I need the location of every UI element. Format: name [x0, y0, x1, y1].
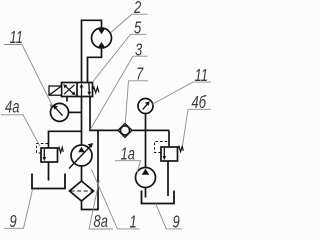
- wire check valve to right branch: [132, 129, 169, 131]
- solenoid actuator of U5: [49, 86, 62, 95]
- svg-text:2: 2: [133, 0, 141, 18]
- pilot dashed line of 4b: [155, 142, 170, 153]
- leader label 1: [92, 170, 140, 229]
- svg-text:9: 9: [173, 213, 180, 233]
- svg-text:3: 3: [135, 40, 142, 60]
- leader label 5: [93, 34, 147, 81]
- wire filter suction loop: [82, 130, 99, 209]
- pump 1 variable: [69, 143, 93, 169]
- svg-text:11: 11: [195, 66, 208, 86]
- spring of 4a: [58, 147, 64, 152]
- leader label 11 left: [4, 45, 53, 107]
- svg-text:8а: 8а: [94, 212, 109, 232]
- spring actuator of U5: [93, 87, 99, 93]
- leader label 4a: [1, 115, 40, 147]
- relief valve 4b: [161, 147, 178, 161]
- wire 4b inlet: [168, 130, 170, 147]
- pump 1a: [136, 168, 156, 188]
- wire pump to filter: [81, 166, 83, 181]
- tank 9 right: [142, 191, 175, 204]
- gauge PG11 right: [138, 99, 153, 114]
- wire valve port B down and right: [90, 97, 118, 131]
- tank 9 left: [32, 174, 65, 189]
- leader label 1a: [115, 161, 141, 173]
- leader label 3: [90, 56, 147, 129]
- svg-text:4б: 4б: [192, 93, 207, 113]
- motor M2: [92, 28, 112, 48]
- relief valve 4a: [41, 148, 58, 162]
- svg-text:1а: 1а: [121, 144, 136, 164]
- leader label 7: [125, 81, 148, 123]
- wire top horizontal of motor loop: [82, 20, 102, 82]
- leader label 11 right: [152, 82, 211, 104]
- svg-text:7: 7: [136, 64, 144, 84]
- wire gauge right stem: [145, 114, 147, 131]
- leader label 9 left: [4, 190, 33, 229]
- valve U5 right square arrows: [80, 83, 91, 97]
- wire gauge left connection: [69, 111, 82, 113]
- wire down to pump 1a: [145, 130, 147, 167]
- svg-text:4а: 4а: [5, 98, 20, 118]
- filter 8a: [70, 181, 94, 201]
- wire pump 1a suction: [145, 188, 147, 198]
- svg-text:5: 5: [134, 19, 141, 39]
- leader label 4b: [183, 109, 212, 146]
- svg-text:9: 9: [10, 212, 17, 232]
- arrowhead of leader 11 left: [50, 104, 53, 108]
- gauge PG11 left: [51, 103, 69, 121]
- wire tap to relief 4a: [49, 131, 82, 148]
- wire pump pressure line P: [81, 97, 83, 146]
- wire 4a outlet to tank: [48, 162, 50, 181]
- valve U5 body: [62, 83, 93, 97]
- valve U5 left square crossed arrows: [63, 84, 75, 95]
- leader label 2: [111, 14, 148, 32]
- leader label 9 right: [156, 203, 182, 229]
- wire 4b outlet to tank: [167, 161, 169, 196]
- wire motor bottom branch: [88, 48, 102, 83]
- valve U5 blocked port stub: [66, 97, 68, 102]
- pilot dashed line of 4a: [37, 144, 49, 154]
- leader lines and shelves: [1, 14, 211, 229]
- spring of 4b: [178, 146, 184, 151]
- svg-text:11: 11: [10, 28, 23, 48]
- check valve 7: [118, 123, 132, 137]
- svg-text:1: 1: [130, 213, 137, 233]
- leader label 8a: [89, 180, 113, 229]
